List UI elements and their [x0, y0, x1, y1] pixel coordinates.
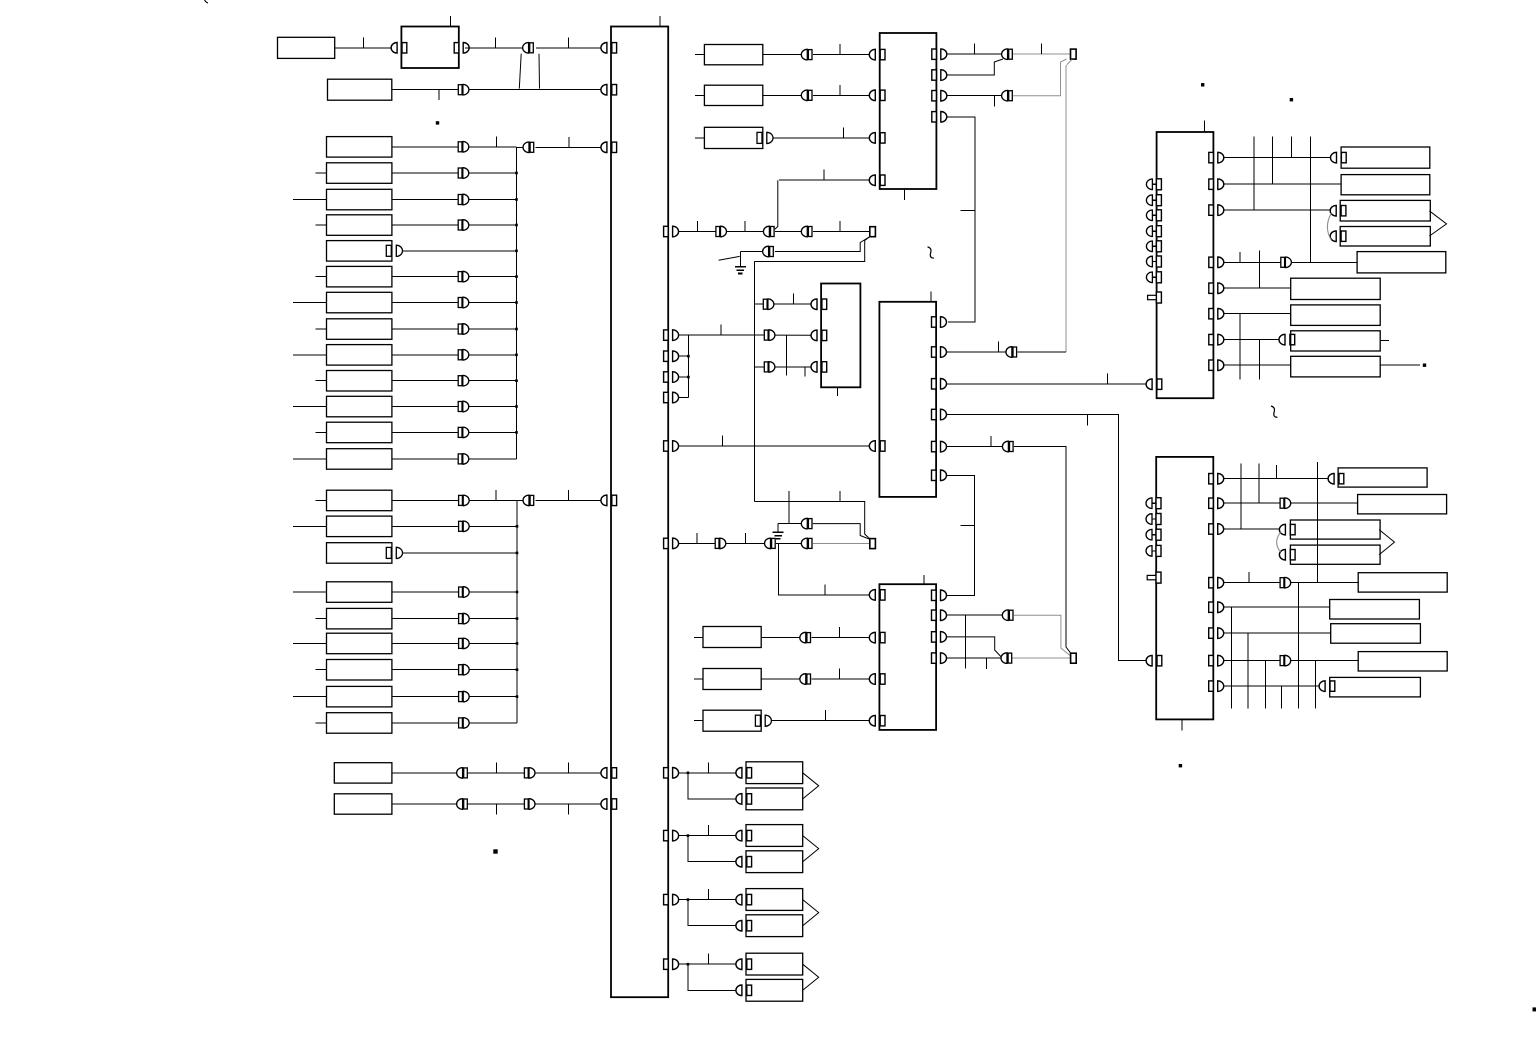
- junction: [687, 772, 690, 775]
- net tick: [568, 137, 570, 148]
- net label box B3: [1290, 520, 1380, 539]
- left stub: [293, 406, 327, 408]
- buffer symbol: [458, 454, 469, 465]
- group marker: [1379, 530, 1394, 555]
- wire: [761, 678, 801, 680]
- net tick: [707, 889, 709, 900]
- left stub: [315, 669, 326, 671]
- branch wire: [688, 773, 737, 799]
- junction: [687, 898, 690, 901]
- net label box L1-12: [327, 422, 392, 443]
- terminal S1: [870, 227, 876, 237]
- wire to buffer: [392, 431, 458, 433]
- pad label box: [746, 979, 803, 1001]
- net label box L2-8: [327, 686, 392, 707]
- buffer symbol: [524, 799, 535, 810]
- buffer symbol: [765, 538, 776, 549]
- pin stub U1 top: [659, 16, 661, 27]
- input pin U7: [1146, 655, 1162, 666]
- wire to bus2: [469, 525, 517, 527]
- wire upper net: [778, 523, 802, 525]
- net tick: [1239, 252, 1241, 262]
- buffer symbol: [458, 375, 469, 386]
- wire to bus2: [403, 552, 518, 554]
- buffer symbol: [523, 142, 534, 153]
- wire to buffer: [392, 722, 459, 724]
- left stub: [694, 637, 703, 639]
- ground: [735, 267, 746, 274]
- output pin U2: [932, 70, 947, 81]
- attached output port: [386, 547, 391, 558]
- group marker: [1429, 211, 1446, 236]
- net label box L1-10: [327, 371, 392, 392]
- net label box L1-9: [327, 345, 392, 366]
- net tick: [362, 37, 364, 48]
- net label box R7: [1291, 305, 1381, 326]
- wire to terminal S2: [813, 542, 870, 544]
- wire: [392, 772, 458, 774]
- unconnected input pin U6: [1146, 226, 1161, 237]
- net tick: [961, 210, 975, 212]
- tie vertical: [687, 335, 689, 397]
- net tick: [1086, 415, 1088, 426]
- output pin U1: [664, 538, 679, 549]
- box port: [1330, 231, 1346, 242]
- connector leader: [519, 54, 521, 89]
- wire to bus2: [469, 669, 517, 671]
- junction: [687, 376, 690, 379]
- stray dot: [436, 121, 439, 124]
- attached output port disc: [765, 715, 771, 726]
- pin stub U0 top: [449, 16, 451, 27]
- net label box L1-6: [327, 266, 392, 287]
- wire: [761, 637, 801, 639]
- net label box L1-4: [327, 215, 392, 236]
- junction: [515, 431, 518, 434]
- comb vertical: [1239, 314, 1241, 380]
- wire to buffer: [392, 642, 459, 644]
- wire down to U5: [947, 476, 975, 596]
- terminal S3: [1071, 49, 1077, 59]
- net tick: [1107, 374, 1109, 385]
- wire row 335: [688, 334, 764, 336]
- input pin U1.4: [601, 495, 617, 506]
- output pin U1: [664, 959, 679, 970]
- buffer symbol: [801, 518, 812, 529]
- net label box R5: [1357, 252, 1446, 273]
- wire to pad box: [688, 835, 737, 837]
- output pin U6: [1209, 308, 1224, 319]
- wire to buffer: [392, 525, 459, 527]
- buffer symbol: [800, 632, 811, 643]
- buffer symbol: [459, 495, 470, 506]
- wire to buffer: [392, 669, 459, 671]
- output pin U7: [1209, 498, 1224, 509]
- junction: [515, 379, 518, 382]
- left stub: [293, 354, 327, 356]
- input pin U5: [869, 632, 885, 643]
- net label box L1-7: [327, 292, 392, 313]
- port tie arc: [1327, 213, 1331, 240]
- output pin U7: [1209, 681, 1224, 692]
- net label box L2-7: [327, 660, 392, 681]
- net tick: [707, 825, 709, 836]
- box port: [1279, 524, 1295, 535]
- wire to U3 pin3: [775, 366, 812, 368]
- output pin U7: [1209, 577, 1224, 588]
- output pin U6: [1209, 179, 1224, 190]
- net label box: [704, 45, 762, 65]
- wire to bus2: [469, 591, 517, 593]
- wire to bus1: [468, 302, 516, 304]
- left stub: [293, 458, 327, 460]
- net tick: [990, 436, 992, 447]
- wire to bus1: [403, 250, 517, 252]
- box stub: [1380, 339, 1389, 341]
- junction: [515, 198, 518, 201]
- wire to bus1: [468, 199, 516, 201]
- stray dot: [493, 849, 497, 853]
- output pin U7: [1209, 602, 1224, 613]
- wire to S4: [1014, 615, 1071, 656]
- wire: [679, 397, 688, 399]
- group marker: [803, 964, 819, 990]
- net label box: [703, 710, 761, 731]
- unconnected input pin U7: [1146, 514, 1161, 525]
- pad label box: [746, 851, 803, 873]
- wire to buffer: [392, 499, 459, 501]
- junction: [687, 834, 690, 837]
- output pin U1: [664, 830, 679, 841]
- output pin U6: [1209, 283, 1224, 294]
- wire to bus2: [469, 618, 517, 620]
- net tick: [842, 127, 844, 137]
- pad label box: [746, 788, 803, 810]
- box port: [1279, 549, 1295, 560]
- comb vertical: [1253, 136, 1255, 210]
- component U3: [821, 284, 860, 388]
- comb vertical: [1276, 465, 1278, 479]
- left stub: [315, 328, 326, 330]
- buffer symbol: [1280, 577, 1291, 588]
- unconnected input pin U7: [1146, 498, 1161, 509]
- wire: [468, 772, 524, 774]
- wire: [679, 835, 688, 837]
- group marker: [803, 900, 819, 926]
- buffer symbol: [457, 799, 468, 810]
- left stub: [695, 137, 704, 139]
- branch wire: [688, 964, 737, 990]
- wire to S4: [1013, 657, 1071, 659]
- wire to pad box: [688, 772, 737, 774]
- wire: [1224, 502, 1280, 504]
- wire to bus1: [468, 276, 516, 278]
- wire to bus1: [468, 431, 516, 433]
- net tick: [839, 85, 841, 96]
- buffer symbol: [457, 768, 468, 779]
- wire to buffer: [392, 696, 459, 698]
- wire: [1224, 183, 1341, 185]
- buffer symbol: [458, 168, 469, 179]
- wire: [774, 303, 812, 305]
- wire to buffer: [392, 618, 459, 620]
- input pin U2: [869, 49, 885, 60]
- output pin U4: [932, 409, 947, 420]
- output pin U2: [932, 90, 947, 101]
- wire: [1224, 632, 1331, 634]
- output pin U6: [1209, 205, 1224, 216]
- wire to bus1: [468, 328, 516, 330]
- net label box B7: [1331, 624, 1421, 644]
- wire vertical net: [753, 262, 755, 502]
- wire: [679, 899, 688, 901]
- net label box B5: [1358, 573, 1447, 592]
- wire: [1224, 364, 1290, 366]
- wire bus1 row1 to U1: [517, 146, 525, 148]
- pad box port: [736, 959, 752, 970]
- junction: [515, 172, 518, 175]
- wire to U1 pin3: [536, 146, 602, 148]
- box port: [1330, 205, 1346, 216]
- wire: [1291, 261, 1357, 263]
- output pin U4: [932, 317, 947, 328]
- terminal S2: [870, 539, 876, 549]
- net tick: [496, 136, 498, 147]
- output pin U1: [664, 441, 679, 452]
- net label box R8: [1291, 331, 1381, 351]
- port tie arc: [1277, 532, 1281, 552]
- net tick: [792, 294, 794, 305]
- wire to U1 pin4: [536, 499, 603, 501]
- net label box A: [278, 37, 335, 58]
- junction: [516, 552, 519, 555]
- output pin U7: [1209, 628, 1224, 639]
- wire: [947, 53, 1003, 55]
- comb vertical: [1298, 583, 1300, 709]
- wire: [773, 137, 869, 139]
- input pin U1: [601, 799, 617, 810]
- group marker: [803, 773, 819, 799]
- pin stub U4 top: [930, 292, 932, 302]
- comb vertical: [1240, 464, 1242, 529]
- output pin U1: [664, 226, 679, 237]
- wire: [947, 614, 1004, 616]
- wire netB: [392, 89, 459, 91]
- buffer symbol: [1001, 653, 1012, 664]
- pad label box: [746, 762, 803, 784]
- output pin U6: [1209, 152, 1224, 163]
- left stub: [694, 678, 703, 680]
- net label box L2-2: [327, 516, 392, 537]
- pad label box: [746, 915, 803, 937]
- pad box port: [736, 920, 752, 931]
- wire upper to S2: [813, 524, 870, 540]
- wire: [754, 303, 763, 305]
- output pin U1: [664, 392, 679, 403]
- net label box B: [328, 79, 392, 100]
- unconnected input pin U7: [1146, 545, 1161, 556]
- buffer symbol: [459, 521, 470, 532]
- buffer symbol: [1280, 655, 1291, 666]
- buffer symbol: [459, 638, 470, 649]
- pad box port: [736, 894, 752, 905]
- input pin U2: [869, 90, 885, 101]
- wire to buffer: [392, 354, 458, 356]
- wire: [811, 637, 870, 639]
- wire: [679, 963, 688, 965]
- component U7: [1156, 457, 1213, 720]
- left stub: [315, 431, 326, 433]
- buffer symbol: [763, 299, 774, 310]
- comb vertical: [1258, 464, 1260, 504]
- buffer symbol: [716, 226, 727, 237]
- wire to bus2: [469, 642, 517, 644]
- input pin U1.2: [601, 84, 617, 95]
- wire: [947, 351, 1007, 353]
- net label box L1-5: [327, 241, 392, 262]
- open stub: [719, 256, 740, 260]
- wire: [775, 231, 803, 233]
- output pin U1: [664, 330, 679, 341]
- net tick: [696, 221, 698, 232]
- wire to S1: [775, 237, 870, 252]
- wire to pad box: [688, 899, 737, 901]
- wire: [1290, 582, 1358, 584]
- wire to bus1: [468, 224, 516, 226]
- pin stub U6 top: [1204, 120, 1206, 132]
- input pin U0: [391, 43, 407, 54]
- pin stub U5 top: [923, 575, 925, 584]
- branch to U5: [779, 543, 871, 595]
- wire down to U4: [947, 117, 975, 322]
- left stub: [315, 276, 326, 278]
- buffer symbol: [458, 350, 469, 361]
- wire to bus1: [468, 354, 516, 356]
- net label box B1: [1338, 468, 1427, 487]
- junction: [516, 642, 519, 645]
- junction: [516, 668, 519, 671]
- wire: [1018, 351, 1066, 353]
- buffer symbol: [1002, 49, 1013, 60]
- net tick: [568, 490, 570, 501]
- wire to U3 pin2: [775, 334, 812, 336]
- junction: [687, 963, 690, 966]
- net label box L2-4: [327, 582, 392, 603]
- net tick: [720, 325, 722, 336]
- attached output port: [386, 245, 391, 256]
- net tick: [707, 954, 709, 965]
- squiggle mark: [928, 247, 934, 258]
- net label box R1: [1341, 147, 1430, 168]
- wire to buffer: [392, 146, 458, 148]
- buffer symbol: [458, 427, 469, 438]
- junction: [515, 405, 518, 408]
- buffer symbol: [458, 271, 469, 282]
- buffer symbol: [801, 226, 812, 237]
- buffer symbol: [459, 718, 470, 729]
- buffer symbol: [524, 768, 535, 779]
- wire netA to U0: [335, 47, 392, 49]
- net tick: [722, 436, 724, 447]
- buffer symbol: [523, 43, 534, 54]
- net tick: [707, 762, 709, 773]
- pad box port: [736, 985, 752, 996]
- net tick: [804, 367, 806, 377]
- buffer symbol: [458, 324, 469, 335]
- left stub: [315, 172, 326, 174]
- comb vertical: [1314, 661, 1316, 709]
- net label box R2: [1341, 175, 1430, 195]
- grey drop from S3: [1066, 60, 1072, 353]
- branch wire: [688, 836, 737, 862]
- net label box L2-3: [327, 543, 392, 564]
- wire: [1224, 528, 1279, 530]
- net label box B6: [1330, 600, 1420, 620]
- wire: [1224, 209, 1330, 211]
- wire: [1290, 660, 1358, 662]
- buffer symbol: [763, 246, 774, 257]
- left stub: [694, 720, 703, 722]
- net tick: [839, 627, 841, 638]
- net tick: [985, 658, 987, 669]
- net label box L2-9: [327, 713, 392, 734]
- buffer symbol: [458, 194, 469, 205]
- pad label box: [746, 825, 803, 847]
- left stub: [315, 618, 326, 620]
- input pin U6: [1146, 379, 1162, 390]
- left stub: [293, 642, 327, 644]
- output pin U1: [664, 894, 679, 905]
- attached output port disc: [767, 132, 773, 143]
- output pin U1: [664, 372, 679, 383]
- left stub: [293, 696, 327, 698]
- input pin U4: [869, 441, 885, 452]
- left stub: [315, 380, 326, 382]
- net label box R9: [1291, 356, 1381, 377]
- output pin U4: [932, 379, 947, 390]
- wire: [1290, 502, 1357, 504]
- wire to terminal S1: [813, 231, 870, 233]
- unconnected input pin U6: [1146, 179, 1161, 190]
- buffer symbol: [715, 538, 726, 549]
- net tick: [495, 762, 497, 773]
- wire: [725, 542, 765, 544]
- buffer symbol: [801, 538, 812, 549]
- wire: [1224, 261, 1281, 263]
- net tick: [567, 804, 569, 815]
- group marker: [803, 836, 819, 862]
- left stub: [315, 499, 326, 501]
- box port: [1328, 473, 1344, 484]
- buffer symbol: [458, 401, 469, 412]
- net label box B9: [1330, 677, 1421, 697]
- wire: [771, 720, 870, 722]
- buffer symbol: [800, 674, 811, 685]
- wire: [679, 542, 715, 544]
- buffer symbol: [1002, 610, 1013, 621]
- wire: [763, 54, 803, 56]
- output pin U7: [1209, 473, 1224, 484]
- attached output port: [757, 132, 762, 143]
- net tick: [993, 96, 995, 107]
- output pin U0: [454, 43, 469, 54]
- stray dot: [1201, 83, 1204, 86]
- input pin U5: [869, 674, 885, 685]
- ground: [773, 532, 784, 539]
- wire: [1224, 660, 1280, 662]
- box port: [1331, 152, 1347, 163]
- output pin U4: [932, 347, 947, 358]
